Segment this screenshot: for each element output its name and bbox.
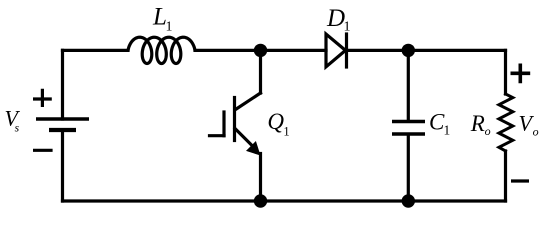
wire capacitor branch upper	[407, 50, 410, 120]
svg-text:D: D	[326, 5, 345, 32]
wire right vertical lower (resistor Ro to bottom corner)	[504, 151, 507, 201]
plus sign at output Vo	[512, 65, 528, 81]
transistor Q1 gate lead	[210, 134, 225, 137]
transistor Q1 collector diagonal	[236, 93, 261, 110]
svg-text:1: 1	[283, 125, 289, 139]
plus sign at battery Vs	[35, 90, 51, 105]
wire top-left (source to inductor)	[63, 49, 129, 52]
junction node at emitter/bottom rail	[254, 194, 267, 207]
svg-text:o: o	[485, 124, 491, 138]
wire left vertical upper (top corner to battery +)	[61, 50, 64, 119]
wire capacitor branch lower	[407, 136, 410, 202]
junction node at capacitor/top rail	[402, 44, 415, 57]
transistor Q1 body bar	[233, 98, 236, 141]
capacitor C1 top plate	[394, 120, 423, 124]
diode D1 cathode bar	[345, 34, 348, 67]
wire right vertical upper (top corner to resistor Ro)	[504, 50, 507, 94]
svg-text:R: R	[470, 111, 485, 136]
svg-text:o: o	[533, 125, 539, 139]
svg-text:1: 1	[344, 19, 351, 34]
diode D1 triangle	[326, 34, 346, 67]
battery Vs negative plate	[51, 128, 74, 132]
wire collector branch (top node to Q1)	[259, 50, 262, 93]
transistor Q1 emitter diagonal	[235, 129, 253, 147]
wire diode cathode to output corner	[347, 49, 506, 52]
svg-text:1: 1	[444, 123, 451, 138]
wire bottom rail	[63, 199, 506, 202]
inductor L1 coil	[128, 37, 195, 63]
wire inductor to diode anode	[195, 49, 326, 52]
svg-text:1: 1	[166, 19, 173, 34]
minus sign at output Vo	[513, 179, 528, 182]
battery Vs positive plate	[38, 117, 87, 121]
svg-text:Q: Q	[267, 109, 284, 134]
capacitor C1 bottom plate	[394, 132, 423, 136]
wire left vertical lower (battery - to bottom corner)	[61, 130, 64, 201]
junction node at collector/top rail	[254, 44, 267, 57]
svg-text:s: s	[15, 122, 20, 134]
resistor Ro zigzag	[499, 94, 513, 151]
transistor Q1 emitter arrowhead	[246, 141, 261, 156]
transistor Q1 gate bar	[222, 112, 225, 136]
minus sign at battery Vs	[35, 149, 51, 152]
junction node at capacitor/bottom rail	[402, 194, 415, 207]
wire emitter branch (Q1 to bottom node)	[259, 154, 262, 202]
